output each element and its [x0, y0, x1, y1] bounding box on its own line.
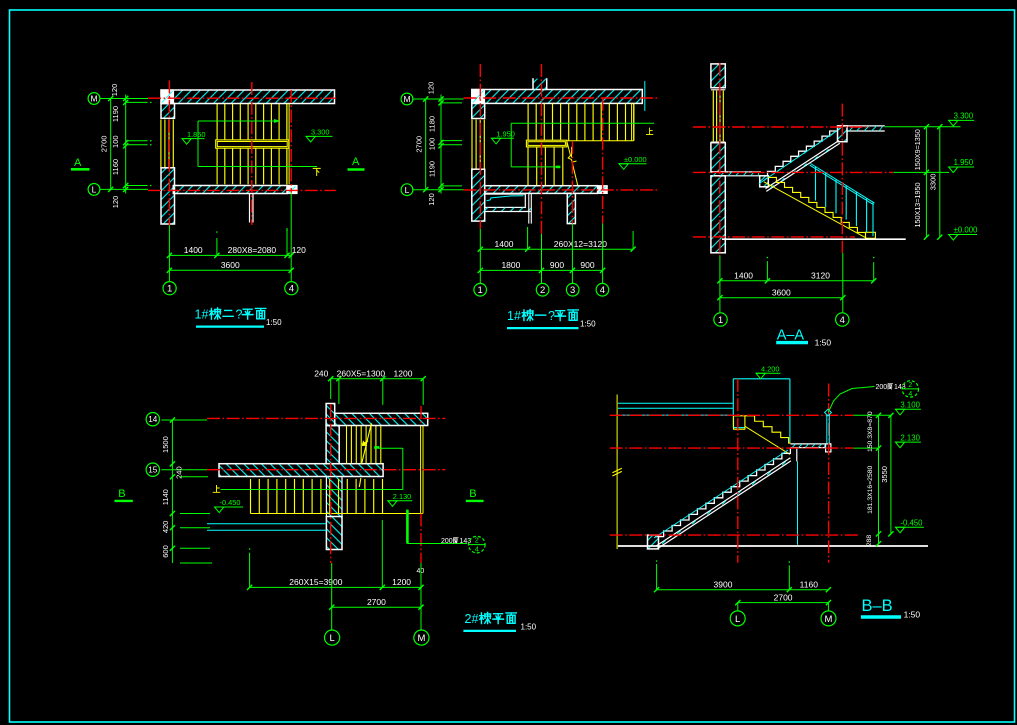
svg-text:120: 120 [427, 82, 436, 95]
sectionBB level line 3.100 [853, 414, 891, 416]
sectionBB upper flight stringer yellow [745, 427, 790, 455]
svg-text:2: 2 [540, 285, 545, 296]
plan3 grid bubble M [414, 630, 429, 645]
svg-text:#: # [202, 308, 209, 322]
plan1 grid bubble 4 [285, 282, 298, 295]
svg-text:1:50: 1:50 [266, 318, 282, 327]
svg-text:4: 4 [289, 284, 294, 295]
svg-text:2.130: 2.130 [900, 433, 920, 442]
svg-text:150.3X8=870: 150.3X8=870 [867, 411, 874, 452]
plan1 left dim chain 120/1190/100/1160/120 [125, 95, 127, 194]
sectionBB upper landing slab [790, 443, 831, 445]
svg-text:B–B: B–B [862, 597, 893, 615]
svg-text:1:50: 1:50 [521, 623, 537, 632]
plan2 up-direction character shang [646, 128, 652, 135]
svg-text:1500: 1500 [161, 436, 170, 453]
plan3 top dim row 240 / 260X5=1300 / 1200 [331, 378, 424, 380]
sectionAA upper flight steps [768, 131, 838, 177]
plan1 axis grid line L horizontal [148, 189, 336, 191]
svg-text:M: M [403, 94, 410, 104]
sectionBB grid bubble stems [737, 603, 739, 611]
plan2 bottom dim row 1400 / 260X12=3120 [480, 248, 633, 250]
svg-text:3900: 3900 [714, 580, 733, 590]
plan2 mid handrail [526, 140, 567, 147]
sectionBB railing post with diamond [826, 415, 828, 444]
plan3 left dim chain 1500/240/1140/420/600 [171, 420, 173, 563]
svg-text:1.950: 1.950 [954, 158, 974, 167]
plan2 grid bubble 2 [536, 283, 549, 296]
svg-text:420: 420 [161, 521, 170, 534]
plan3 elevation 2.130 [388, 500, 413, 502]
plan3 grid bubble 14 [146, 413, 159, 426]
plan2 axis grid line 3 vertical [571, 141, 573, 223]
plan2 left window lines [471, 120, 473, 170]
sectionBB axis level 3.100 horizontal [610, 414, 854, 416]
svg-text:1: 1 [195, 308, 202, 322]
svg-text:120: 120 [292, 245, 306, 255]
svg-text:600: 600 [161, 545, 170, 558]
plan3 upper stair treads [346, 426, 348, 464]
svg-text:15: 15 [148, 466, 158, 475]
sectionBB axis level 2.130 horizontal [610, 447, 854, 449]
sectionAA level line 1.950 [893, 171, 949, 173]
svg-text:3.100: 3.100 [900, 401, 920, 410]
plan1 bottom dim row 3600 [169, 269, 291, 271]
svg-text:?: ? [236, 308, 243, 322]
sectionBB roof tank outline [733, 378, 790, 380]
sectionAA elevation 3.300 [949, 119, 975, 121]
plan2 upper flight bottom edge [528, 140, 634, 142]
plan3 lower flight bottom edge [251, 513, 423, 515]
plan1 grid bubble L [88, 184, 100, 196]
svg-text:1190: 1190 [111, 106, 120, 122]
svg-text:1190: 1190 [427, 161, 436, 177]
svg-text:3.300: 3.300 [311, 128, 330, 137]
svg-text:40: 40 [417, 568, 425, 575]
plan3 grid bubble stems [331, 563, 333, 630]
svg-text:1: 1 [718, 315, 723, 326]
sectionAA bottom dim row 1400 / 3120 [720, 280, 874, 282]
svg-text:1: 1 [507, 309, 514, 323]
sectionBB right overall dim 3550 [890, 415, 892, 534]
plan1 down-direction character xia [313, 168, 320, 175]
plan2 lower landing ramp line [487, 196, 524, 201]
svg-text:L: L [92, 185, 97, 195]
svg-text:143: 143 [894, 384, 906, 391]
plan3 bottom dim row 260X15=3900 / 1200 [250, 586, 421, 588]
svg-text:±0.000: ±0.000 [954, 226, 978, 235]
svg-text:4: 4 [600, 285, 605, 296]
svg-text:#: # [514, 309, 521, 323]
sectionAA axis level 1.950 horizontal [693, 171, 893, 173]
plan2 elevation 1.950 [491, 137, 514, 139]
sectionBB main flight steps [655, 448, 790, 537]
plan3 top dim extensions [330, 379, 332, 399]
sectionBB elevation 4.200 [756, 372, 781, 374]
svg-text:1400: 1400 [495, 239, 514, 249]
svg-text:1200: 1200 [392, 577, 411, 587]
sectionAA top landing nose block [838, 126, 848, 142]
plan2 grid3 wall stub [567, 193, 575, 223]
svg-text:1:50: 1:50 [815, 338, 832, 348]
svg-text:L: L [329, 633, 334, 644]
svg-text:14: 14 [148, 415, 158, 424]
plan2 upper flight right stringer [631, 103, 633, 140]
sectionAA level line 3.300 [885, 126, 961, 128]
sectionBB ground line [618, 545, 928, 547]
plan2 grid bubble stems [479, 229, 481, 284]
plan1 grid bubble M [88, 93, 100, 105]
sectionAA axis level 3.300 horizontal [693, 126, 870, 128]
svg-text:A: A [74, 157, 82, 169]
sectionBB grid bubble L [730, 611, 745, 626]
svg-text:120: 120 [111, 196, 120, 209]
svg-text:1: 1 [167, 284, 172, 295]
sectionBB main flight rail line [654, 450, 788, 538]
plan3 central wall lower [326, 426, 339, 464]
svg-text:2: 2 [908, 382, 912, 389]
plan2 bottom dim extensions [527, 227, 529, 249]
plan3 detail note 200厚143 with leader [406, 510, 409, 544]
plan2 bottom wall [485, 186, 598, 194]
svg-text:120: 120 [427, 193, 436, 206]
svg-text:B: B [118, 488, 125, 500]
plan2 grid bubble L [401, 184, 413, 196]
plan2 left dim connector M [413, 98, 464, 100]
plan2 stair break line [567, 142, 578, 186]
plan1 mid handrail [216, 140, 289, 148]
plan2 axis grid line 2 vertical [541, 64, 543, 234]
sectionBB detail note 200厚143 with leader [828, 387, 874, 413]
plan1 bottom wall end block [287, 186, 297, 194]
plan1 left dim connector L [100, 188, 148, 190]
plan3 wall stub below [326, 477, 342, 517]
svg-text:2.130: 2.130 [393, 492, 412, 501]
plan2 wall stub above top wall [533, 79, 547, 90]
plan1 top wall [161, 90, 335, 104]
sectionAA axis level 0.000 horizontal [693, 236, 855, 238]
sectionAA stringer hatch ticks [771, 185, 774, 188]
sectionBB grid bubble M [821, 611, 836, 626]
plan3 lower stair treads [250, 479, 252, 514]
sectionBB axis grid M vertical [828, 384, 830, 563]
svg-text:4.200: 4.200 [761, 364, 780, 373]
sectionAA axis grid 4 vertical [841, 104, 843, 253]
sectionAA mid landing nose block [760, 176, 769, 187]
plan3 bottom dim extensions [249, 553, 251, 588]
svg-text:1.950: 1.950 [496, 130, 515, 139]
sectionBB detail bubble [902, 381, 918, 397]
svg-text:3600: 3600 [221, 260, 240, 270]
sectionAA lower flight stringer [764, 182, 867, 239]
plan3 lower cyan ramp lines [207, 523, 326, 525]
svg-text:900: 900 [580, 260, 594, 270]
svg-text:M: M [417, 633, 425, 644]
plan1 left wall lower pier [161, 168, 175, 224]
plan1 top wall corner block [161, 90, 174, 104]
svg-text:2: 2 [475, 538, 479, 545]
svg-text:2700: 2700 [774, 592, 793, 602]
plan1 axis centre vertical [251, 82, 253, 225]
plan3 axis grid 14 horizontal [207, 417, 445, 419]
sectionAA bottom dim extensions [766, 261, 768, 281]
plan1 axis grid line 4 vertical [290, 90, 292, 193]
plan2 axis grid line 4 vertical [602, 98, 604, 223]
svg-text:100: 100 [427, 138, 436, 151]
plan2 grid bubble M [401, 93, 413, 105]
plan3 top wall band [335, 413, 428, 425]
svg-text:2700: 2700 [367, 597, 386, 607]
sectionAA left wall middle block [711, 143, 725, 172]
plan3 mid wall band [219, 464, 383, 477]
svg-text:4: 4 [908, 391, 912, 398]
plan2 left wall lower pier [472, 169, 485, 221]
svg-text:2700: 2700 [415, 136, 424, 153]
sectionBB main flight stringer [657, 458, 791, 546]
sectionAA lower flight steps [768, 177, 865, 237]
sectionBB level line 2.130 [853, 447, 878, 449]
plan3 grid bubble L [325, 630, 340, 645]
plan3 walking line [221, 489, 403, 491]
plan3 bottom dim row 2700 [332, 606, 421, 608]
sectionBB elevation 2.130 [895, 441, 921, 443]
sectionBB axis grid L vertical [737, 379, 739, 563]
sectionBB right dim chain 870/2580/288 [878, 415, 880, 543]
plan1 stair treads [216, 104, 218, 185]
plan2 grid bubble 3 [566, 283, 579, 296]
svg-text:A: A [352, 156, 360, 168]
svg-text:?: ? [548, 309, 555, 323]
sectionAA grid bubble 1 [714, 313, 727, 326]
svg-text:143: 143 [460, 538, 472, 545]
sectionBB landing support [796, 448, 798, 462]
plan1 left window lines [160, 120, 162, 168]
plan2 top wall corner block [472, 90, 485, 104]
svg-text:1:50: 1:50 [580, 320, 596, 329]
plan2 left wall upper pier [472, 103, 485, 118]
plan1 axis grid line M horizontal [148, 97, 336, 99]
plan1 stair right stringer lines [286, 104, 288, 185]
svg-text:1400: 1400 [734, 271, 753, 281]
plan3 elevation -0.450 [215, 506, 244, 508]
plan3 axis grid M vertical [420, 406, 422, 426]
sectionAA bottom dim row 3600 [720, 297, 843, 299]
plan1 grid bubble 1 [163, 282, 176, 295]
sectionAA handrail balusters [815, 167, 817, 201]
plan2 grid bubble 1 [474, 283, 487, 296]
plan2 wall stub right of landing [528, 194, 530, 224]
svg-text:B: B [469, 488, 476, 500]
plan1 left wall upper pier [161, 104, 175, 119]
sectionBB upper flight steps yellow [734, 416, 745, 429]
sectionBB left break line yellow [616, 395, 618, 550]
svg-text:200: 200 [441, 538, 453, 545]
svg-text:150X13=1950: 150X13=1950 [913, 183, 922, 228]
svg-text:1160: 1160 [111, 159, 120, 175]
plan3 left dim connector 15 [161, 469, 207, 471]
svg-text:1180: 1180 [427, 116, 436, 132]
plan1 elevation 3.300 [306, 135, 333, 137]
sectionBB flight bottom block [648, 535, 659, 549]
sectionBB elevation 3.100 [895, 408, 921, 410]
svg-text:288: 288 [866, 535, 873, 547]
svg-text:1.850: 1.850 [187, 130, 206, 139]
sectionAA wall window lines [711, 89, 725, 91]
svg-text:2: 2 [465, 612, 472, 626]
svg-text:3300: 3300 [928, 174, 937, 191]
svg-text:120: 120 [110, 84, 119, 97]
svg-text:-0.450: -0.450 [220, 498, 241, 507]
svg-text:280X8=2080: 280X8=2080 [228, 245, 277, 255]
svg-text:260X12=3120: 260X12=3120 [554, 239, 607, 249]
plan3 up-direction character shang [213, 485, 220, 492]
plan1 axis grid line 1 vertical [168, 81, 170, 226]
svg-text:3120: 3120 [811, 271, 830, 281]
svg-text:1200: 1200 [394, 369, 413, 379]
sectionBB upper floor slab lines [618, 402, 733, 404]
svg-text:L: L [735, 614, 740, 625]
plan1 bottom dim row 1400 / 280x8=2080 / 120 [169, 254, 291, 256]
svg-text:3: 3 [570, 285, 575, 296]
plan1 grid bubble stem 1 [168, 225, 170, 282]
plan1 left dim extension stubs [126, 101, 148, 103]
svg-text:150X9=1350: 150X9=1350 [913, 129, 922, 170]
sectionAA top landing slab [838, 125, 885, 127]
plan2 left dim chain 120/1180/100/1190/120 [440, 95, 442, 194]
sectionAA elevation +-0.000 [949, 234, 978, 236]
plan3 stair break line [362, 423, 372, 463]
svg-text:M: M [90, 94, 97, 104]
plan1 grid bubble stem 4 [290, 193, 292, 282]
plan2 axis grid line L horizontal [464, 189, 659, 191]
sectionAA lower flight end block [866, 232, 876, 238]
svg-text:4: 4 [840, 315, 845, 326]
svg-text:181.3X16=2580: 181.3X16=2580 [867, 465, 874, 513]
sectionBB bottom dim extensions [656, 564, 658, 590]
plan2 elevation +-0.000 [619, 163, 647, 165]
sectionAA axis grid 1 vertical [719, 63, 721, 256]
svg-text:#: # [472, 612, 479, 626]
plan2 bottom dim row 1800/900/900 [480, 269, 602, 271]
svg-text:1160: 1160 [800, 580, 819, 590]
svg-text:±0.000: ±0.000 [624, 155, 647, 164]
svg-text:240: 240 [314, 368, 328, 378]
svg-text:260X15=3900: 260X15=3900 [289, 577, 342, 587]
svg-text:M: M [825, 614, 833, 625]
svg-text:900: 900 [550, 260, 564, 270]
plan2 lower stair treads [527, 147, 529, 185]
plan2 left dim connector L [413, 189, 464, 191]
plan2 overall left dim 2700 [425, 99, 427, 190]
plan2 lower band below landing [484, 207, 531, 211]
svg-text:1800: 1800 [501, 260, 520, 270]
sectionAA right overall dim 3300 [939, 127, 941, 238]
sectionAA upper flight stringer [766, 141, 840, 189]
plan2 axis grid line 1 vertical [479, 64, 481, 229]
sectionBB elevation -0.450 [895, 526, 924, 528]
sectionAA right dim chain 150X9=1350 / 150X13=1950 [925, 127, 927, 238]
plan3 central wall upper [326, 404, 335, 426]
svg-text:100: 100 [111, 135, 120, 148]
plan2 top wall [472, 90, 643, 104]
plan1 left dim connector M [100, 98, 148, 100]
plan2 left dim extension stubs [441, 102, 462, 104]
sectionAA mid landing slab [711, 171, 761, 173]
plan3 axis grid L vertical [330, 404, 332, 563]
sectionAA left wall lower block [711, 176, 725, 253]
svg-text:L: L [405, 185, 410, 195]
svg-text:4: 4 [475, 547, 479, 554]
plan3 left dim connector 14 [161, 419, 207, 421]
plan1 bottom dim extensions [216, 238, 218, 255]
svg-text:260X5=1300: 260X5=1300 [337, 369, 386, 379]
plan2 grid bubble 4 [596, 283, 609, 296]
plan2 walking line [510, 123, 512, 167]
svg-text:3600: 3600 [772, 288, 791, 298]
svg-text:1: 1 [478, 285, 483, 296]
sectionAA grid bubble stems [719, 298, 721, 313]
svg-text:200: 200 [876, 384, 888, 391]
sectionAA grid bubble 4 [836, 313, 849, 326]
plan1 wall stub below bottom wall [249, 194, 251, 223]
sectionAA elevation 1.950 [949, 166, 975, 168]
svg-text:1400: 1400 [184, 245, 203, 255]
sectionBB bottom dim row 2700 [738, 602, 829, 604]
sectionAA upper flight rail line behind [759, 128, 841, 183]
plan2 axis grid line M horizontal [464, 97, 659, 99]
plan2 break line at wall right end [644, 81, 646, 111]
sectionBB axis level -0.450 horizontal [610, 534, 860, 536]
svg-text:1:50: 1:50 [904, 610, 921, 620]
plan1 walking line [197, 121, 199, 167]
plan3 detail bubble [469, 536, 486, 553]
svg-text:3.300: 3.300 [954, 112, 974, 121]
plan1 elevation 1.850 [182, 138, 205, 140]
svg-text:1140: 1140 [161, 489, 170, 505]
plan2 lower landing box [485, 194, 526, 207]
plan3 left dim extension stubs [180, 476, 208, 478]
plan2 upper stair treads [527, 103, 529, 140]
plan3 grid bubble 15 [146, 463, 159, 476]
sectionAA left wall upper block [711, 64, 725, 88]
plan1 bottom wall [173, 186, 287, 194]
plan3 axis grid 15 horizontal [207, 469, 445, 471]
plan3 outer stringer yellow [420, 426, 422, 514]
svg-text:2700: 2700 [100, 136, 109, 153]
svg-text:3550: 3550 [880, 466, 889, 483]
sectionAA lower flight handrail [811, 164, 875, 204]
plan2 bottom wall end block [598, 186, 608, 194]
plan1 overall left dim 2700 [110, 99, 112, 190]
sectionBB bottom dim row 3900 / 1160 [657, 589, 829, 591]
sectionAA ground line [722, 238, 906, 240]
svg-text:-0.450: -0.450 [900, 518, 923, 527]
